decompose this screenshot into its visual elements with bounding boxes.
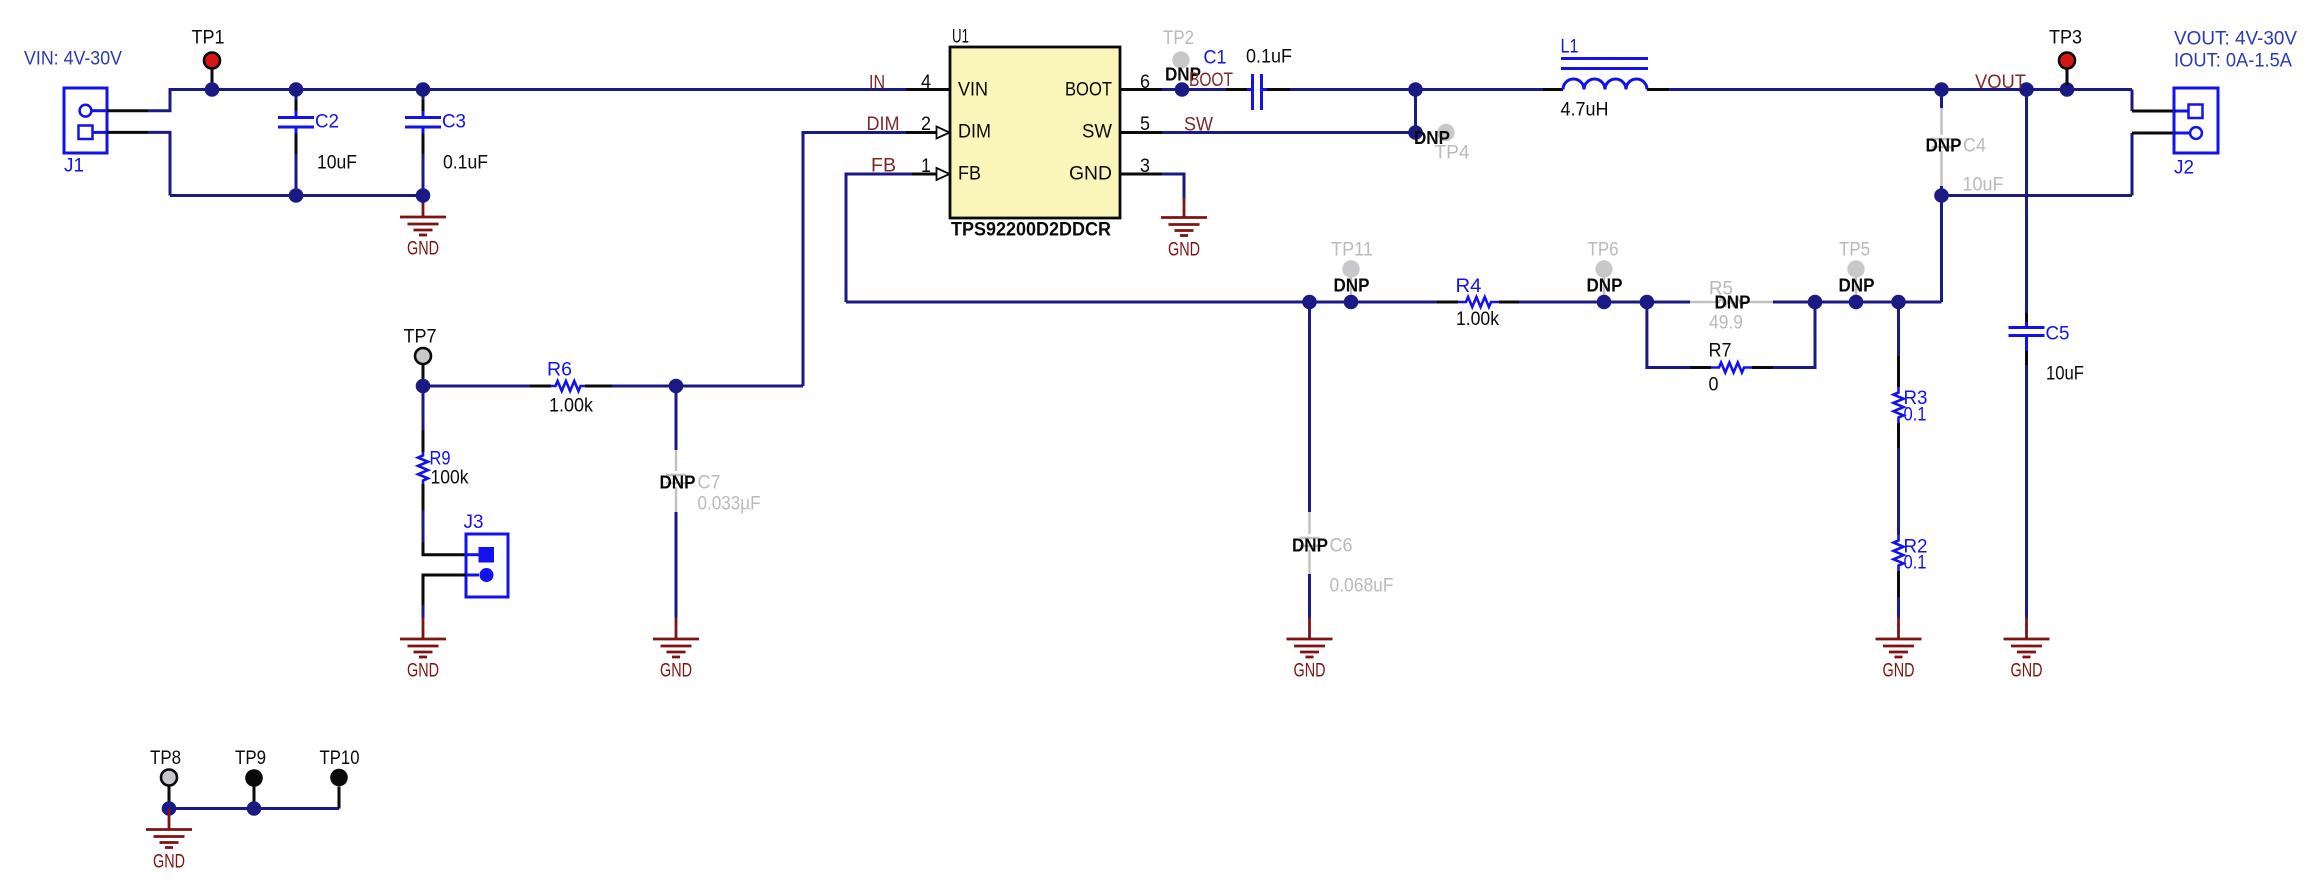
svg-text:4.7uH: 4.7uH: [1561, 99, 1609, 121]
svg-text:FB: FB: [958, 163, 981, 185]
pin lead VIN: [906, 88, 950, 91]
svg-text:C5: C5: [2046, 323, 2070, 345]
junction TP5: [1849, 295, 1864, 310]
svg-text:TP9: TP9: [235, 747, 266, 769]
testpoint TP1: [204, 53, 220, 87]
testpoint TP5: [1847, 260, 1864, 302]
testpoint TP11: [1342, 260, 1359, 302]
wire return to J2 pin2: [2131, 133, 2134, 196]
svg-text:SW: SW: [1184, 114, 1214, 136]
junction R7 right: [1808, 295, 1823, 310]
resistor R6: [530, 381, 612, 391]
svg-text:TP11: TP11: [1331, 239, 1373, 261]
ground input rail: [400, 196, 446, 260]
svg-text:C3: C3: [442, 111, 466, 133]
junction TP8: [162, 801, 177, 816]
testpoint TP7: [415, 348, 431, 380]
junction C2 bottom: [289, 188, 304, 203]
resistor R2: [1894, 535, 1904, 618]
junction VOUT-C4: [1934, 82, 1949, 97]
capacitor C2: [278, 96, 314, 196]
testpoint TP2: [1172, 51, 1189, 68]
testpoint TP10: [330, 769, 348, 809]
svg-text:DNP: DNP: [1926, 136, 1962, 156]
ground U1: [1161, 198, 1207, 261]
svg-text:GND: GND: [407, 660, 439, 682]
svg-text:1.00k: 1.00k: [1456, 308, 1499, 330]
ground TP8: [146, 809, 192, 873]
wire J1 pin1 to VIN rail: [148, 90, 170, 111]
svg-text:TP5: TP5: [1839, 239, 1870, 261]
junction VOUT-C5: [2019, 82, 2034, 97]
wire R4 to R5: [1519, 301, 1690, 304]
resistor R3: [1894, 302, 1904, 448]
svg-text:L1: L1: [1561, 36, 1579, 58]
wire DIM net: [803, 133, 906, 387]
junction R7 left: [1640, 295, 1655, 310]
resistor R7: [1690, 363, 1773, 373]
pin lead J2 pin1: [2132, 110, 2176, 113]
junction TP11: [1344, 295, 1359, 310]
wire TP8 rail: [169, 807, 339, 810]
svg-text:0.033µF: 0.033µF: [698, 493, 761, 515]
resistor R4: [1437, 297, 1519, 307]
svg-text:TP10: TP10: [320, 747, 360, 769]
capacitor C1: [1226, 74, 1290, 110]
svg-text:C7: C7: [698, 472, 721, 494]
svg-text:1.00k: 1.00k: [549, 395, 593, 417]
svg-text:GND: GND: [1069, 163, 1112, 185]
svg-text:100k: 100k: [431, 467, 469, 489]
svg-text:J2: J2: [2174, 157, 2194, 179]
junction C3 top: [416, 82, 431, 97]
pin lead GND: [1120, 173, 1162, 176]
junction C7 tap: [669, 379, 684, 394]
ground J3: [400, 618, 446, 682]
svg-text:10uF: 10uF: [2046, 363, 2084, 385]
testpoint TP8: [161, 770, 177, 803]
svg-text:TP8: TP8: [150, 747, 181, 769]
connector J2: [2174, 88, 2218, 153]
svg-text:BOOT: BOOT: [1065, 79, 1112, 101]
ground R2: [1876, 618, 1922, 682]
wire J1 pin1 lead: [107, 109, 148, 112]
wire J1 pin2 lead: [107, 131, 148, 134]
svg-text:TPS92200D2DDCR: TPS92200D2DDCR: [951, 220, 1111, 241]
wire VOUT to J2 pin1: [2131, 90, 2134, 112]
svg-text:VOUT: VOUT: [1975, 71, 2026, 93]
svg-text:BOOT: BOOT: [1189, 69, 1233, 91]
svg-text:TP7: TP7: [404, 326, 437, 348]
pin lead J2 pin2: [2132, 132, 2176, 135]
pin lead FB: [912, 168, 950, 180]
svg-text:VIN: 4V-30V: VIN: 4V-30V: [24, 48, 122, 70]
wire J1 pin2 to GND rail: [148, 132, 170, 195]
svg-text:J1: J1: [64, 155, 84, 177]
svg-text:10uF: 10uF: [317, 152, 357, 174]
junction BOOT-TP2: [1175, 82, 1190, 97]
svg-text:IN: IN: [869, 72, 885, 94]
junction VOUT-TP3: [2060, 82, 2075, 97]
ground C7: [653, 618, 699, 682]
inductor L1: [1543, 59, 1669, 90]
svg-text:U1: U1: [952, 26, 969, 48]
wire TP7 to R6: [423, 385, 530, 388]
capacitor C7 DNP: [666, 386, 686, 618]
svg-text:49.9: 49.9: [1709, 312, 1743, 334]
capacitor C6 DNP: [1300, 302, 1320, 618]
svg-text:0.068uF: 0.068uF: [1330, 575, 1394, 597]
junction VIN-TP1: [205, 82, 220, 97]
wire FB rail to VOUT return: [1940, 196, 1943, 303]
svg-text:DNP: DNP: [1839, 276, 1875, 296]
svg-text:C2: C2: [315, 111, 339, 133]
svg-text:TP6: TP6: [1588, 239, 1619, 261]
pin lead DIM: [906, 127, 950, 139]
svg-text:GND: GND: [407, 238, 439, 260]
ground C5: [2004, 618, 2050, 682]
junction C4 bottom: [1934, 188, 1949, 203]
svg-text:TP1: TP1: [192, 27, 225, 49]
pin lead SW: [1120, 131, 1162, 134]
wire VIN rail: [169, 88, 907, 91]
svg-text:VOUT: 4V-30V: VOUT: 4V-30V: [2174, 28, 2297, 50]
wire bottom input rail: [170, 194, 423, 197]
svg-text:0.1: 0.1: [1904, 552, 1927, 574]
svg-text:DNP: DNP: [660, 473, 696, 493]
junction SW-L1 node: [1408, 82, 1423, 97]
svg-text:GND: GND: [2011, 660, 2043, 682]
svg-text:DIM: DIM: [958, 121, 991, 143]
wire R7 right leg: [1773, 302, 1815, 368]
junction C6 tap: [1302, 295, 1317, 310]
wire FB rail: [846, 301, 1437, 304]
wire C1 to SW node: [1290, 88, 1543, 91]
svg-text:0.1uF: 0.1uF: [1246, 46, 1292, 68]
svg-text:J3: J3: [464, 511, 484, 533]
wire SW vertical: [1414, 90, 1417, 133]
svg-text:0.1: 0.1: [1904, 404, 1927, 426]
svg-text:SW: SW: [1082, 121, 1113, 143]
testpoint TP6: [1595, 260, 1612, 302]
svg-text:R4: R4: [1456, 275, 1482, 297]
svg-text:0.1uF: 0.1uF: [443, 152, 488, 174]
resistor R9: [418, 386, 428, 542]
svg-text:IOUT: 0A-1.5A: IOUT: 0A-1.5A: [2174, 50, 2292, 72]
connector J1: [64, 88, 107, 153]
svg-text:GND: GND: [1294, 660, 1326, 682]
junction R3 tap: [1891, 295, 1906, 310]
svg-text:GND: GND: [660, 660, 692, 682]
wire L1 to VOUT: [1669, 88, 2132, 91]
svg-text:TP4: TP4: [1435, 142, 1470, 164]
svg-text:TP2: TP2: [1163, 27, 1194, 49]
svg-text:TP3: TP3: [2049, 27, 2082, 49]
ic U1 body: [950, 47, 1120, 218]
connector J3: [466, 534, 508, 597]
wire FB net vertical: [846, 174, 912, 302]
svg-text:10uF: 10uF: [1963, 174, 2004, 196]
svg-text:GND: GND: [1168, 239, 1200, 261]
wire R3 to R2: [1897, 448, 1900, 535]
capacitor C5: [2009, 90, 2045, 618]
wire R9 to J3 pin1: [423, 542, 466, 555]
svg-text:DNP: DNP: [1587, 276, 1623, 296]
svg-text:DNP: DNP: [1292, 536, 1328, 556]
testpoint TP4: [1437, 124, 1454, 141]
wire R5 to TP5: [1773, 301, 1942, 304]
pin lead BOOT: [1120, 88, 1162, 91]
svg-text:0: 0: [1709, 374, 1719, 396]
testpoint TP9: [245, 769, 263, 802]
testpoint TP3: [2059, 53, 2075, 87]
junction C3 bottom: [416, 188, 431, 203]
svg-text:C4: C4: [1963, 135, 1986, 157]
svg-text:C1: C1: [1204, 47, 1227, 69]
svg-text:GND: GND: [1883, 660, 1915, 682]
junction SW-TP4: [1408, 125, 1423, 140]
capacitor C3: [405, 96, 441, 196]
wire R6 to DIM riser: [612, 385, 803, 388]
junction TP9: [247, 801, 262, 816]
wire R7 left leg: [1647, 302, 1690, 368]
junction C2 top: [289, 82, 304, 97]
junction TP6: [1597, 295, 1612, 310]
svg-text:VIN: VIN: [958, 79, 988, 101]
ground C6: [1287, 618, 1333, 682]
resistor R5 DNP: [1690, 298, 1773, 306]
capacitor C4 DNP: [1932, 90, 1952, 196]
svg-text:GND: GND: [153, 851, 185, 873]
svg-text:R7: R7: [1709, 340, 1732, 362]
junction TP7: [416, 379, 431, 394]
svg-text:DNP: DNP: [1334, 276, 1370, 296]
wire U1 GND: [1162, 174, 1184, 198]
wire SW: [1162, 131, 1416, 134]
wire J3 pin2 to ground: [423, 575, 466, 618]
svg-text:DNP: DNP: [1715, 293, 1751, 313]
svg-text:R6: R6: [547, 359, 572, 381]
wire BOOT: [1162, 88, 1226, 91]
wire J2 return rail: [1942, 194, 2133, 197]
svg-text:C6: C6: [1330, 535, 1353, 557]
